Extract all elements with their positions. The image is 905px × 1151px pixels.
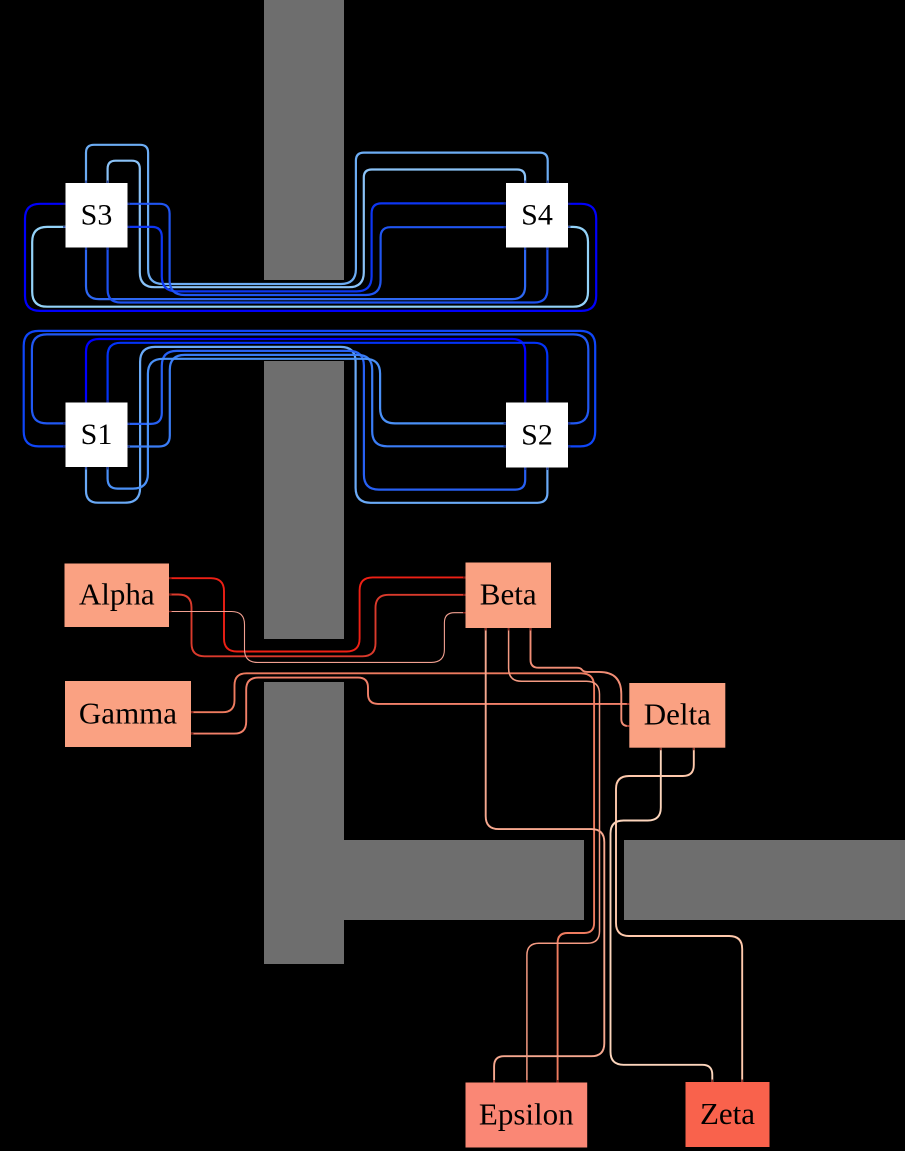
wire N3 Alpha.R3 to Beta.L3 (thin pale salmon) bbox=[169, 612, 465, 663]
obstacle: horizontal gray bar right segment bbox=[624, 840, 905, 920]
node Delta bbox=[629, 683, 725, 748]
node Alpha bbox=[65, 564, 170, 628]
wire b2 S1.L1 to S2.R1 (bottom bundle line 2) bbox=[32, 334, 588, 423]
pin marks Beta bbox=[463, 577, 531, 630]
pin marks Alpha bbox=[169, 578, 172, 611]
obstacle: horizontal gray bar left segment bbox=[344, 840, 584, 920]
pin marks Epsilon bbox=[494, 1080, 557, 1083]
wire t8 S3.L1 to S4.R1 (pure blue outer loop, bundle line 8) bbox=[25, 204, 596, 311]
wire N2 Alpha.R2 to Beta.L2 (dark red) bbox=[169, 595, 465, 657]
wire t1 S3.T1 to S4.T2 (sky, bundle line 1) bbox=[86, 145, 548, 284]
node S4 bbox=[506, 183, 568, 248]
wire b3 S1.T1 to S2.T1 (pure blue, bottom bundle line 3) bbox=[86, 339, 525, 403]
obstacle: vertical gray bar middle segment bbox=[264, 361, 344, 639]
obstacle: vertical gray bar bottom segment bbox=[264, 682, 344, 964]
node S1 bbox=[66, 403, 128, 468]
wire N10 Delta.B2 to Zeta.T2 (peach) bbox=[616, 748, 742, 1082]
obstacle: vertical gray bar top segment bbox=[264, 0, 344, 280]
wire N8 Beta.B3 to Delta.L2 (salmon) bbox=[531, 628, 630, 726]
node S2 bbox=[506, 403, 568, 468]
wire N1 Alpha.R1 to Beta.L1 (bright red) bbox=[169, 577, 465, 651]
wire b1 S1.L2 to S2.R2 (outer loop, bottom bundle line 1) bbox=[24, 331, 596, 447]
wire N9 Delta.B1 to Zeta.T1 (pale peach) bbox=[611, 748, 713, 1082]
wire N7 Beta.B2 to Epsilon.T2 (salmon) bbox=[509, 628, 600, 1083]
wire t3 S3.R2 to S4.L1 (vivid blue, bundle line 3) bbox=[128, 203, 507, 291]
pin marks Zeta bbox=[712, 1080, 742, 1083]
pin marks Gamma bbox=[191, 712, 194, 733]
pin marks S1 bbox=[63, 400, 130, 470]
node Gamma bbox=[65, 681, 191, 747]
pin marks Delta bbox=[627, 704, 694, 750]
svg-text:Alpha: Alpha bbox=[79, 577, 155, 612]
pin marks S3 bbox=[63, 181, 130, 251]
node S3 bbox=[66, 183, 128, 248]
node Epsilon bbox=[466, 1083, 588, 1148]
svg-text:Gamma: Gamma bbox=[79, 695, 177, 730]
node Zeta bbox=[686, 1082, 770, 1147]
svg-text:S1: S1 bbox=[81, 418, 113, 451]
svg-text:Epsilon: Epsilon bbox=[479, 1096, 574, 1131]
wire t5 S3.B1 to S4.B1 (bundle line 5) bbox=[86, 248, 525, 300]
node Beta bbox=[466, 563, 552, 629]
wire N4 Gamma.R1 to Epsilon.T3 (orange salmon) bbox=[191, 673, 594, 1082]
svg-text:Zeta: Zeta bbox=[700, 1096, 755, 1131]
wire t6 S3.B2 to S4.B2 (bundle line 6) bbox=[108, 248, 548, 303]
svg-text:Beta: Beta bbox=[480, 577, 537, 612]
svg-text:S4: S4 bbox=[521, 198, 553, 231]
wire t4 S3.R1 to S4.L2 (royal blue, bundle line 4) bbox=[128, 204, 507, 295]
wire N6 Beta.B1 to Epsilon.T1 (light salmon) bbox=[486, 628, 605, 1083]
wire t2 S3.T2 to S4.T1 (lighter sky, bundle line 2) bbox=[108, 161, 525, 288]
svg-text:S3: S3 bbox=[81, 198, 113, 231]
svg-text:Delta: Delta bbox=[644, 697, 711, 732]
svg-text:S2: S2 bbox=[521, 418, 553, 451]
wire t7 S3.L2 to S4.R2 (pale sky loop, bundle line 7) bbox=[32, 227, 588, 307]
wire b5 S1.B1 to S2.B2 (light sky, bottom bundle line 5) bbox=[86, 347, 547, 503]
wire N5 Gamma.R2 to Delta.L1 (salmon) bbox=[191, 678, 629, 734]
wire b4 S1.T2 to S2.T2 (bottom bundle line 4) bbox=[108, 343, 548, 403]
wire b8 S1.B2 to S2.L1 (bottom bundle line 8) bbox=[108, 359, 506, 489]
pin marks S2 bbox=[504, 400, 571, 470]
wire b6 S1.R1 to S2.B1 (bottom bundle line 6) bbox=[128, 351, 526, 490]
pin marks S4 bbox=[504, 181, 571, 251]
wire b7 S1.R2 to S2.L2 (bottom bundle line 7) bbox=[128, 355, 507, 447]
